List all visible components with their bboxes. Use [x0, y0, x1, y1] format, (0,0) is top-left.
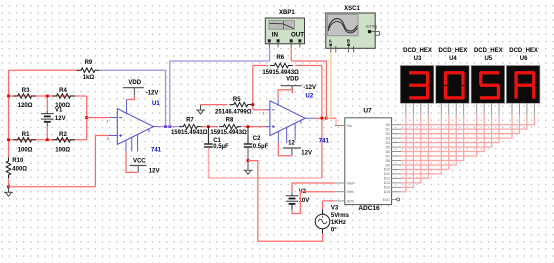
pin U2 pin1 stub [277, 131, 279, 143]
resistor R8 [219, 124, 242, 129]
wire XSC1 A to U2 output [326, 53, 330, 119]
svg-text:R9: R9 [85, 60, 93, 66]
svg-text:100Ω: 100Ω [18, 147, 33, 153]
junction bridge output [85, 116, 88, 119]
capacitor C1 [204, 144, 213, 147]
pin V1 top [46, 111, 48, 114]
svg-text:D8: D8 [386, 159, 390, 163]
svg-text:120Ω: 120Ω [18, 103, 33, 109]
wire U2 pin4 to VCC [278, 143, 292, 156]
XBP1 screen curve [270, 23, 294, 28]
junction U1 output XBP [168, 125, 171, 128]
instrument XSC1 body [326, 13, 375, 48]
stub XSC1 pin [348, 46, 350, 53]
XBP1 screen [269, 21, 295, 30]
wire ground to R5 [201, 104, 228, 106]
pin ADC D2 [392, 133, 402, 135]
display U6 digit A [514, 71, 535, 99]
pin ADC D7 [392, 155, 402, 157]
display U5 [471, 66, 505, 104]
pin ADC Vref+ [335, 182, 345, 184]
svg-text:400Ω: 400Ω [12, 167, 27, 173]
terminal XSC1 ext trig [368, 30, 371, 33]
svg-text:R8: R8 [226, 117, 234, 123]
resistor R1 [13, 138, 36, 143]
wire C2 top stem [247, 127, 249, 144]
svg-text:12V: 12V [301, 150, 312, 156]
wire R5 R6 vertical [252, 66, 254, 110]
svg-text:0°: 0° [331, 227, 337, 233]
stub ext trig 2 [375, 34, 380, 36]
pin display U5 p4 [498, 103, 500, 115]
stub ext trig 1 [371, 31, 380, 33]
svg-text:D12: D12 [384, 177, 390, 181]
wire to U2 inverting [253, 109, 266, 111]
pin ADC SOC [335, 200, 345, 202]
wire C1 to U2 output feedback [208, 148, 322, 178]
svg-text:12V: 12V [55, 116, 66, 122]
resistor R4 [52, 94, 75, 99]
svg-text:1kΩ: 1kΩ [83, 75, 95, 81]
pin ADC D11 [392, 173, 402, 175]
junction C2 ground V3 [247, 159, 250, 162]
svg-text:U7: U7 [363, 108, 372, 115]
wire U1 pin4 to VCC [126, 152, 138, 173]
wire XBP IN drop [269, 48, 271, 62]
op-amp U2 [270, 101, 305, 136]
pin U2 inverting stub [266, 109, 270, 111]
terminal XSC1 B [347, 44, 349, 46]
pin U2 pin5 stub [294, 123, 296, 140]
battery V2 [286, 196, 299, 204]
display U3 [400, 66, 434, 104]
svg-text:2: 2 [107, 119, 109, 123]
power VDD bar U2 [281, 86, 302, 94]
svg-text:D13: D13 [384, 181, 390, 185]
svg-text:R7: R7 [186, 117, 194, 123]
svg-text:B: B [347, 39, 350, 44]
pin ADC D10 [392, 168, 402, 170]
pin U2 noninverting stub [266, 126, 270, 128]
component ADC16 box [345, 118, 392, 205]
terminal XBP1 pin2 [277, 39, 280, 42]
wire bridge upper row [9, 95, 87, 97]
junction U2 output feedback [321, 117, 324, 120]
pin ADC D15 [392, 191, 402, 193]
terminal XSC1 A [329, 44, 331, 46]
stub ext trig 3 [379, 32, 381, 36]
svg-text:R3: R3 [22, 88, 30, 94]
svg-text:U1: U1 [152, 101, 160, 107]
capacitor C2 [244, 144, 253, 147]
wire D3 to display pin [401, 115, 512, 138]
junction R8 C2 [247, 125, 250, 128]
wire D6 to display pin [401, 115, 484, 151]
source V3 [315, 214, 330, 229]
wire U2 output to ADC Vin [336, 118, 345, 125]
junction U2 output scope [325, 117, 328, 120]
svg-text:6: 6 [148, 129, 150, 133]
pin ADC Vref- [335, 191, 345, 193]
svg-text:D4: D4 [386, 141, 390, 145]
junction bridge left upper [7, 95, 10, 98]
ground R5 [196, 105, 205, 115]
svg-text:0.5µF: 0.5µF [253, 144, 269, 150]
resistor R3 [13, 94, 36, 99]
display U4 digit 0 [444, 71, 465, 99]
pin ADC EOC [392, 199, 397, 201]
pin U2 output stub [305, 117, 314, 119]
svg-text:D7: D7 [386, 154, 390, 158]
svg-text:XSC1: XSC1 [344, 6, 360, 12]
wire V1 bottom stem [46, 126, 48, 140]
svg-text:D10: D10 [384, 168, 390, 172]
wire D14 to display pin [401, 115, 413, 187]
resistor R7 [179, 124, 202, 129]
svg-text:100Ω: 100Ω [55, 147, 70, 153]
svg-text:15915.4943Ω: 15915.4943Ω [262, 70, 299, 76]
wire C2 to ground stem [247, 148, 249, 165]
display U4 [436, 66, 470, 104]
svg-text:D1: D1 [386, 127, 390, 131]
pin U1 pin7 stub [126, 100, 128, 115]
XSC1 waveform B [328, 21, 357, 32]
wire D0 to display pin [401, 115, 534, 125]
resistor R5 [229, 102, 252, 107]
display U5 digit 5 [479, 71, 500, 99]
pin ADC D4 [392, 142, 402, 144]
pin display U5 p3 [491, 103, 493, 115]
wire D4 to display pin [401, 115, 499, 142]
wire to XBP IN horizontal [170, 60, 270, 62]
wire R9 to U1 output horizontal [99, 69, 165, 71]
wire V2 bottom stem [291, 204, 293, 210]
svg-text:VCC: VCC [133, 158, 146, 164]
svg-text:SOC: SOC [347, 199, 355, 203]
wire R5 to node [253, 104, 254, 106]
svg-text:6: 6 [300, 121, 302, 125]
pin U1 inverting stub [109, 117, 117, 119]
svg-text:Vin: Vin [347, 124, 352, 128]
pin display U3 p4 [427, 103, 429, 115]
svg-text:U5: U5 [484, 56, 492, 62]
svg-text:R1: R1 [22, 132, 30, 138]
pin ADC Vin [335, 125, 345, 127]
svg-text:VDD: VDD [128, 80, 141, 86]
wire U1 noninverting vertical [94, 136, 96, 187]
pin display U4 p2 [448, 103, 450, 115]
wire ground node to U1 noninverting [9, 186, 96, 188]
svg-text:C2: C2 [253, 136, 261, 142]
pin U1 pin4 stub [131, 137, 133, 151]
pin display U3 p3 [420, 103, 422, 115]
wire V3 top stem [322, 210, 324, 215]
terminal XBP1 pin1 [268, 39, 271, 42]
wire R6 to U2 output vertical [321, 66, 323, 179]
pin display U3 p2 [412, 103, 414, 115]
power VCC bar U2 [283, 148, 301, 156]
junction V1 top [46, 95, 49, 98]
power VDD bar U1 [123, 88, 144, 96]
resistor R10 [6, 158, 11, 179]
wire bridge top to R9 [9, 69, 79, 71]
svg-text:D6: D6 [386, 150, 390, 154]
svg-text:D11: D11 [384, 172, 390, 176]
wire XBP OUT down [290, 48, 292, 62]
wire R6 left lead [253, 65, 268, 67]
wire VDD to U2 pin7 [278, 90, 292, 99]
wire R6 right [295, 65, 322, 67]
pin display U4 p3 [455, 103, 457, 115]
svg-text:741: 741 [319, 139, 330, 145]
wire D12 to display pin [401, 115, 428, 178]
pin ADC D5 [392, 146, 402, 148]
wire R7 to R8 [202, 126, 218, 128]
junction bridge left lower [7, 138, 10, 141]
resistor R6 [270, 63, 293, 68]
pin ADC D9 [392, 164, 402, 166]
wire V2 minus to Vref- [292, 192, 335, 214]
power VCC bar U1 [130, 166, 147, 173]
svg-text:IN: IN [272, 32, 279, 39]
svg-text:EOC: EOC [383, 198, 391, 202]
XSC1 waveform A [328, 19, 357, 31]
wire V3 bottom stem [322, 229, 324, 234]
wire D7 to display pin [401, 115, 476, 156]
pin display U5 p1 [476, 103, 478, 115]
resistor R9 [77, 68, 100, 73]
instrument XBP1 body [265, 18, 304, 44]
svg-text:VDD: VDD [286, 76, 299, 82]
wire C1 top stem [207, 127, 209, 144]
svg-text:15915.4943Ω: 15915.4943Ω [171, 130, 208, 136]
stub XSC1 pin [335, 46, 337, 53]
svg-text:R10: R10 [12, 158, 24, 164]
wire D2 to display pin [401, 115, 519, 134]
wire D13 to display pin [401, 115, 420, 183]
op-amp U1 [117, 109, 153, 145]
wire V3 to SOC vertical [322, 201, 324, 210]
pin V1 bottom [46, 122, 48, 126]
svg-text:2: 2 [263, 111, 265, 115]
svg-text:5Vrms: 5Vrms [331, 213, 350, 219]
pin display U3 p1 [405, 103, 407, 115]
junction R5 R6 [251, 103, 254, 106]
svg-text:12: 12 [288, 141, 295, 147]
wire V2 plus to Vref+ [292, 183, 335, 192]
svg-text:741: 741 [151, 148, 162, 154]
svg-text:C1: C1 [213, 138, 221, 144]
pin ADC D1 [392, 128, 402, 130]
svg-text:3: 3 [107, 137, 109, 141]
pin U1 noninverting stub [109, 135, 117, 137]
svg-text:XBP1: XBP1 [279, 10, 295, 16]
svg-text:-12V: -12V [146, 90, 159, 96]
battery V1 [41, 114, 54, 122]
svg-text:Vref+: Vref+ [347, 182, 355, 186]
ground bridge [4, 187, 13, 197]
pin display U4 p1 [440, 103, 442, 115]
svg-text:-12V: -12V [303, 85, 316, 91]
pin ADC D6 [392, 151, 402, 153]
svg-text:Ext Trig: Ext Trig [366, 25, 377, 29]
junction R10 ground node [7, 185, 10, 188]
svg-text:1KHz: 1KHz [331, 220, 346, 226]
terminal XBP1 pin3 [290, 39, 293, 42]
svg-text:OUT: OUT [291, 32, 304, 39]
svg-text:R6: R6 [276, 55, 284, 61]
pin ADC D8 [392, 159, 402, 161]
wire D1 to display pin [401, 115, 527, 129]
junction V1 bottom [46, 138, 49, 141]
svg-text:ADC16: ADC16 [358, 205, 380, 212]
wire U1 output to R7 [159, 126, 179, 128]
svg-text:D5: D5 [386, 145, 390, 149]
XBP1 screen cursor [283, 21, 285, 29]
svg-text:DCD_HEX: DCD_HEX [509, 48, 538, 54]
svg-text:25146.4799Ω: 25146.4799Ω [215, 109, 252, 115]
wire to U1 noninverting input [95, 135, 109, 137]
wire bridge to U1 inverting input [87, 117, 109, 119]
wire bridge left vertical [8, 70, 10, 158]
pin U1 pin1 stub [125, 140, 127, 152]
pin V2 top [291, 192, 293, 196]
svg-text:12V: 12V [149, 168, 160, 174]
pin ADC D13 [392, 182, 402, 184]
pin ADC D12 [392, 177, 402, 179]
svg-text:R2: R2 [59, 132, 67, 138]
svg-text:D15: D15 [384, 190, 390, 194]
svg-text:DCD_HEX: DCD_HEX [403, 48, 432, 54]
wire D9 to display pin [401, 115, 456, 165]
wire V3 minus to ground node [248, 161, 323, 242]
pin U1 output stub [153, 126, 158, 128]
pin U2 pin4 stub [286, 127, 288, 143]
pin display U5 p2 [483, 103, 485, 115]
svg-text:U6: U6 [520, 56, 528, 62]
stub XSC1 pin [330, 46, 332, 53]
svg-text:D9: D9 [386, 163, 390, 167]
svg-text:D3: D3 [386, 136, 390, 140]
svg-text:R5: R5 [233, 97, 241, 103]
svg-text:U2: U2 [306, 93, 314, 99]
svg-text:V1: V1 [55, 108, 63, 114]
display U3 digit 3 [409, 71, 429, 99]
svg-text:DCD_HEX: DCD_HEX [439, 48, 468, 54]
pin ADC D0 [392, 124, 402, 126]
terminal XBP1 pin4 [298, 39, 301, 42]
wire D5 to display pin [401, 115, 491, 147]
wire R8 to U2 [243, 126, 266, 128]
wire V1 top stem [46, 96, 48, 111]
pin display U6 p1 [511, 103, 513, 115]
pin ADC D14 [392, 186, 402, 188]
svg-text:15915.4943Ω: 15915.4943Ω [210, 130, 247, 136]
junction R7 R8 C1 [207, 125, 210, 128]
svg-text:V3: V3 [331, 205, 339, 211]
wire V3 to SOC [323, 200, 335, 202]
wire XBP OUT to U2 output [291, 61, 326, 118]
pin U2 pin7 stub [277, 98, 279, 105]
wire U2 output [315, 117, 337, 119]
pin display U6 p3 [526, 103, 528, 115]
junction U1 output R9 [164, 125, 167, 128]
pin U1 pin5 stub [137, 135, 139, 152]
wire D15 to display pin [401, 115, 406, 192]
pin ADC D3 [392, 137, 402, 139]
svg-text:D14: D14 [384, 186, 390, 190]
XSC1 screen [328, 15, 359, 36]
wire bridge right vertical [86, 96, 88, 140]
wire D8 to display pin [401, 115, 463, 160]
wire D11 to display pin [401, 115, 441, 174]
ground C2 [244, 165, 253, 175]
wire U1 output to XBP vertical [169, 61, 171, 127]
svg-text:D0: D0 [386, 123, 390, 127]
pin display U6 p2 [518, 103, 520, 115]
wire VDD to U1 pin7 [127, 95, 135, 99]
pin display U4 p4 [463, 103, 465, 115]
wire bridge lower row [9, 139, 87, 141]
wire R10 to ground [8, 179, 10, 187]
svg-text:Vref-: Vref- [347, 190, 355, 194]
wire D10 to display pin [401, 115, 448, 169]
svg-text:D2: D2 [386, 132, 390, 136]
display U6 [506, 66, 540, 104]
svg-text:U4: U4 [449, 56, 457, 62]
resistor R2 [52, 138, 75, 143]
stub XSC1 pin [353, 46, 355, 53]
svg-text:DCD_HEX: DCD_HEX [474, 48, 503, 54]
wire R9 feedback vertical [165, 70, 167, 126]
svg-text:R4: R4 [59, 88, 67, 94]
svg-text:0.5µF: 0.5µF [213, 144, 229, 150]
pin display U6 p4 [533, 103, 535, 115]
svg-text:U3: U3 [414, 56, 422, 62]
